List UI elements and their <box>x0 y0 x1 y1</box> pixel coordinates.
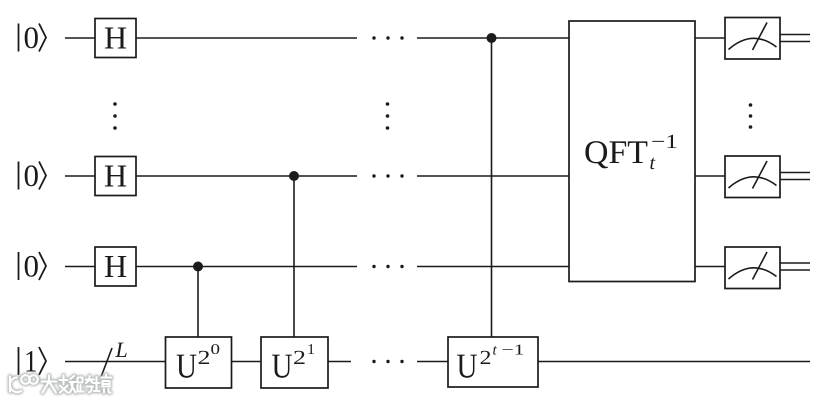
svg-text:0: 0 <box>211 342 221 358</box>
svg-text:QFT: QFT <box>584 135 648 171</box>
svg-text:1: 1 <box>307 342 315 358</box>
svg-text:−1: −1 <box>651 131 678 153</box>
svg-text:H: H <box>104 158 127 194</box>
svg-text:0: 0 <box>24 158 40 193</box>
svg-text:U: U <box>457 347 478 386</box>
svg-text:0: 0 <box>24 20 40 55</box>
svg-text:2: 2 <box>293 347 306 369</box>
svg-text:2: 2 <box>198 347 211 369</box>
svg-text:L: L <box>115 337 128 362</box>
svg-text:H: H <box>104 248 127 284</box>
svg-text:2: 2 <box>480 347 492 369</box>
svg-text:H: H <box>104 20 127 56</box>
svg-text:−1: −1 <box>502 343 525 359</box>
svg-text:t: t <box>650 152 656 174</box>
svg-text:0: 0 <box>24 249 40 284</box>
svg-text:U: U <box>272 347 293 386</box>
svg-text:U: U <box>176 347 197 386</box>
